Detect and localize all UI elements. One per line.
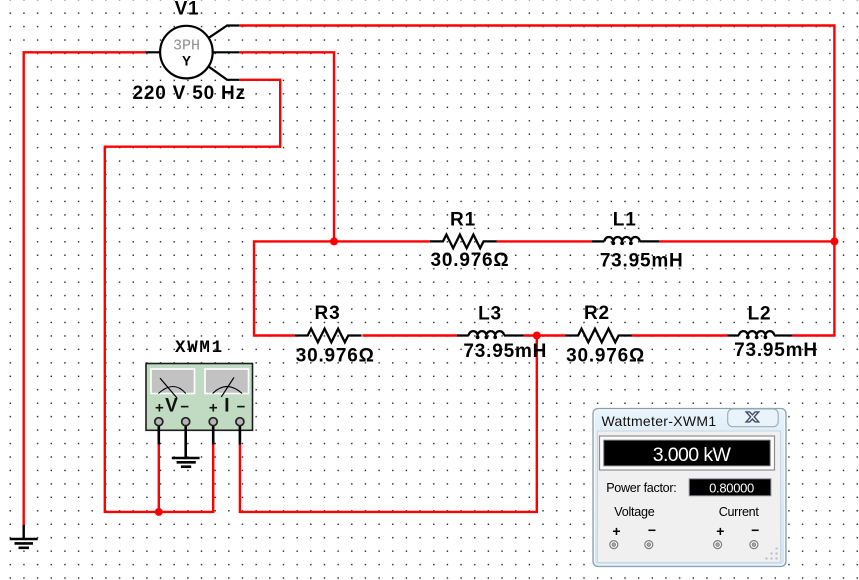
wattmeter XWM1 body (146, 364, 253, 431)
svg-text:I: I (224, 396, 229, 417)
svg-text:R3: R3 (315, 303, 341, 324)
wire wattmeter V+ terminal drop (158, 444, 160, 512)
wire R2 to L2 (631, 334, 727, 336)
wire R1 to L1 (497, 240, 593, 242)
text +V- on wattmeter (155, 396, 189, 417)
ground at left rail (10, 525, 38, 548)
wire row1 junction branch down to R3 row (254, 241, 334, 335)
svg-text:3PH: 3PH (173, 38, 200, 55)
resistor R2 (565, 329, 631, 343)
inductor L2 (727, 331, 792, 339)
pin I- (236, 418, 244, 426)
pin stub I+ (212, 426, 215, 445)
junction node right rail row1 (830, 237, 838, 245)
svg-text:R1: R1 (450, 210, 476, 231)
svg-text:Y: Y (182, 53, 191, 68)
pin I+ (209, 418, 217, 426)
svg-text:0.80000: 0.80000 (709, 480, 754, 495)
inductor L1 (592, 237, 659, 245)
svg-text:220 V 50 Hz: 220 V 50 Hz (133, 83, 246, 104)
wattmeter instrument window Wattmeter-XWM1 (593, 409, 786, 567)
wattmeter voltage meter face (151, 369, 195, 398)
resistor R1 (430, 235, 497, 249)
svg-text:30.976Ω: 30.976Ω (566, 346, 645, 367)
svg-text:−: − (237, 398, 246, 415)
junction node row1 at V1 phase B (330, 237, 338, 245)
wire L3 to R2 through node (524, 334, 565, 336)
svg-text:73.95mH: 73.95mH (463, 341, 547, 362)
svg-text:−: − (180, 398, 189, 415)
svg-text:3.000 kW: 3.000 kW (653, 444, 732, 466)
svg-text:73.95mH: 73.95mH (600, 251, 684, 272)
wattmeter current meter face (205, 369, 249, 397)
text +I- on wattmeter (209, 396, 246, 417)
pin stub V- (184, 426, 187, 458)
svg-text:Power factor:: Power factor: (606, 481, 676, 495)
junction node wattmeter V+ drop (155, 508, 163, 516)
ground at wattmeter V- (172, 458, 200, 467)
svg-text:+: + (612, 523, 620, 539)
svg-text:L1: L1 (613, 210, 637, 231)
svg-text:V: V (165, 396, 178, 417)
svg-text:−: − (751, 522, 759, 538)
svg-text:R2: R2 (584, 303, 610, 324)
svg-text:+: + (209, 399, 218, 416)
wire V1 phase A to top rail and right rail down to L2 (239, 26, 834, 336)
pin stub V+ (158, 426, 161, 445)
svg-text:Wattmeter-XWM1: Wattmeter-XWM1 (602, 413, 717, 429)
wire row1 junction to R1 (334, 240, 430, 242)
wire wattmeter I- terminal to row2 node (240, 336, 537, 512)
svg-text:−: − (648, 522, 656, 538)
svg-text:30.976Ω: 30.976Ω (296, 345, 375, 366)
resistor R3 (295, 329, 362, 343)
pin V+ (155, 418, 163, 426)
3-phase source V1 (145, 26, 239, 80)
svg-text:XWM1: XWM1 (175, 338, 224, 358)
pin V- (182, 418, 190, 426)
wire V1 phase B down to row1 junction (239, 52, 334, 241)
svg-text:+: + (716, 523, 724, 539)
svg-text:+: + (155, 399, 164, 416)
inductor L3 (457, 331, 524, 339)
pin stub I- (239, 426, 242, 445)
svg-text:V1: V1 (175, 0, 200, 20)
wire R3 to L3 (362, 334, 456, 336)
junction node row2 between L3 and R2 (533, 332, 541, 340)
svg-text:L3: L3 (478, 304, 502, 325)
svg-text:L2: L2 (748, 304, 772, 325)
svg-text:Current: Current (719, 505, 760, 519)
svg-text:73.95mH: 73.95mH (734, 340, 818, 361)
svg-text:30.976Ω: 30.976Ω (431, 250, 510, 271)
wire L1 to right rail junction (659, 240, 834, 242)
wire V1 phase C loop down to wattmeter V+ and I+ (105, 80, 280, 512)
svg-text:Voltage: Voltage (614, 505, 655, 519)
wire V1 left terminal to left rail and down to ground (24, 52, 146, 526)
